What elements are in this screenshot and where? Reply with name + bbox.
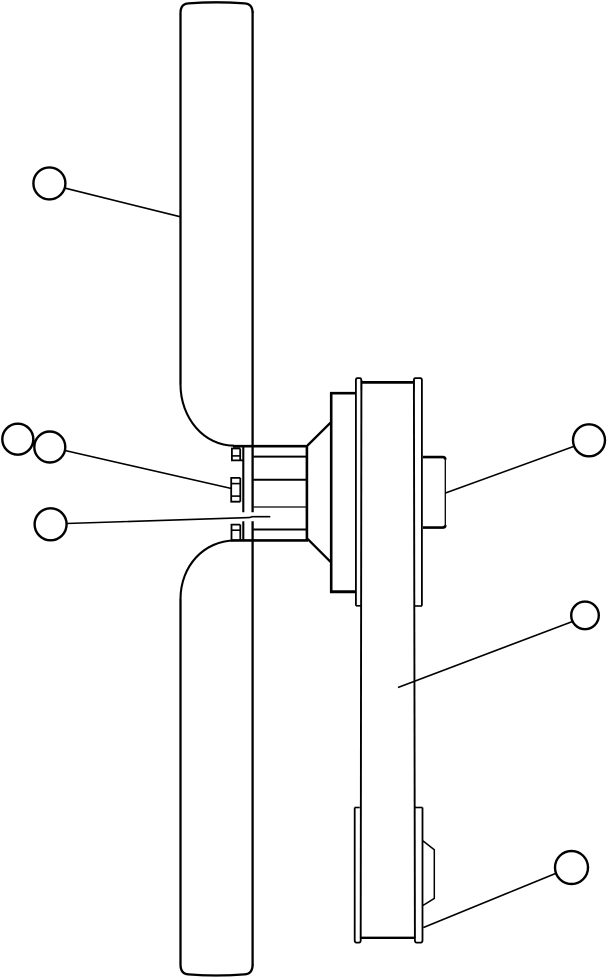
cone mount lower slant	[308, 539, 332, 563]
callout circle 7	[555, 851, 588, 884]
wheel face top edge	[362, 381, 414, 384]
shaft end block right edge	[444, 460, 446, 525]
wheel rim flange bottom-left (outer line with rounded bottom cap)	[355, 808, 361, 943]
bolt B2 inner vertical	[239, 478, 241, 502]
hub interior line 2	[254, 479, 306, 481]
bolt B2 (middle) head outline	[231, 478, 240, 502]
shaft end block top edge	[423, 457, 445, 460]
wheel face bottom edge	[361, 937, 415, 939]
hub interior line 4	[254, 529, 306, 531]
hub interior line 1	[254, 456, 306, 458]
leader line 5	[398, 622, 573, 688]
bolt B2 facet line lower	[231, 495, 240, 497]
leader line 1	[65, 188, 180, 217]
flange bottom-left top step	[355, 807, 360, 809]
cone mount upper slant	[308, 422, 332, 445]
hub right edge	[306, 445, 309, 541]
bolt B1 facet line	[232, 455, 240, 457]
bolt B1 inner vertical	[239, 449, 241, 461]
pulley bottom edge	[330, 590, 356, 593]
hub interior line 3 (thin)	[254, 506, 306, 508]
fan blade plane line (lower segment)	[251, 521, 253, 966]
wheel face left edge (full height)	[360, 380, 363, 938]
flange top-right bottom step	[415, 605, 423, 607]
hub left wall (lower segment)	[242, 521, 244, 540]
boss bump lower right	[423, 841, 435, 906]
wheel rim flange top-left (outer line with rounded cap)	[356, 378, 361, 606]
bolt B3 facet line	[232, 529, 241, 531]
upper fan blade	[181, 2, 253, 384]
leader line 2	[65, 451, 231, 489]
flange bottom-right top step	[416, 807, 423, 809]
bolt B3 inner vertical	[239, 525, 241, 540]
wheel rim flange top-right (outer line with rounded cap)	[414, 378, 422, 606]
callout circle 4	[35, 508, 67, 540]
pulley left edge	[330, 393, 333, 593]
leader line 6	[424, 874, 556, 928]
bolt B2 facet line upper	[231, 483, 240, 485]
hub left wall (upper segment)	[242, 446, 244, 512]
shaft end block bottom edge	[423, 525, 445, 528]
fan blade plane line (upper segment)	[251, 11, 253, 512]
pulley top edge	[330, 392, 356, 395]
callout circle 3	[34, 432, 65, 463]
hub top edge	[233, 445, 308, 448]
lower fan blade	[181, 599, 253, 976]
bolt B1 (top) head outline	[232, 449, 243, 461]
lower fan blade top fillet	[181, 541, 236, 600]
callout circle 6	[571, 602, 599, 630]
upper fan blade bottom fillet	[181, 385, 235, 446]
callout circle 1	[33, 167, 65, 199]
leader line 3	[67, 517, 271, 524]
wheel face right edge (full height)	[414, 380, 415, 938]
wheel rim flange bottom-right (outer line with rounded bottom cap)	[415, 808, 423, 943]
callout circle 2	[2, 424, 33, 455]
hub bottom edge	[231, 539, 308, 542]
callout circle 5	[573, 424, 605, 456]
leader line 4	[446, 447, 574, 494]
bolt B3 (bottom) head outline	[232, 525, 241, 540]
flange top-left bottom step	[356, 605, 361, 607]
